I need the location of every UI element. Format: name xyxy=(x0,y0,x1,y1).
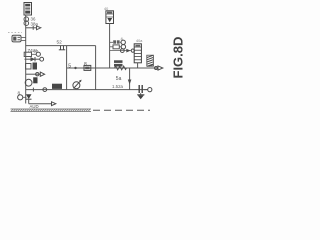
wire (diode down, turn right, AUD arrow) xyxy=(29,99,56,109)
junction tick xyxy=(32,88,34,92)
dashed ground continuation xyxy=(93,109,150,111)
svg-text:40a: 40a xyxy=(136,39,143,43)
block 30 (top-left component box) xyxy=(24,3,32,16)
wire (left bus vertical) xyxy=(25,15,27,104)
wire from ladder block to mid bus xyxy=(137,63,139,68)
diode D1 row with terminal xyxy=(25,57,44,61)
capacitor to box top wire xyxy=(59,46,65,50)
component block on mid bus xyxy=(84,65,91,70)
terminal ring (bottom left) xyxy=(18,95,23,100)
terminal ring (bottom bus right end) xyxy=(144,88,152,92)
ring on bus xyxy=(43,88,47,92)
wire (mid bus y=68) xyxy=(67,67,158,69)
resistor R1 (inline zigzag on mid bus) xyxy=(115,66,127,70)
antenna block (top middle) xyxy=(104,7,114,24)
connector ladder block xyxy=(134,39,143,63)
wire row with ring + terminal xyxy=(26,72,45,76)
svg-text:FIG.8D: FIG.8D xyxy=(171,37,186,79)
wire (long bottom bus y=89.5) xyxy=(26,89,148,91)
svg-text:5a: 5a xyxy=(116,76,122,82)
amplifier box (left edge) xyxy=(66,46,68,90)
inductor L1 (two-loop coil on bus) xyxy=(24,17,29,26)
chassis hatched bar xyxy=(11,109,92,111)
junction dot xyxy=(74,67,76,69)
indicator row 1: box + lamp xyxy=(110,40,126,44)
wire (middle vertical bus) xyxy=(109,24,111,69)
svg-text:40: 40 xyxy=(104,7,108,11)
ground symbol xyxy=(137,93,144,99)
arrow terminal (mid bus right end) xyxy=(155,67,158,70)
indicator row 2: box + lamp xyxy=(110,45,126,49)
wire (long horizontal to box top) xyxy=(26,45,96,47)
capacitor (bottom bus, right) xyxy=(139,85,142,93)
svg-text:3b: 3b xyxy=(34,48,39,53)
diode D2 (down) xyxy=(26,94,32,99)
component Z4 (dark glyph block) xyxy=(26,63,38,70)
label 52a (text block above mid bus) xyxy=(114,60,123,66)
buzzer circle with label a xyxy=(25,77,37,86)
svg-text:AUD: AUD xyxy=(30,104,39,109)
label 36a (above bottom bus) xyxy=(52,84,62,89)
amplifier box (right edge) xyxy=(95,46,97,90)
diode row with lamp xyxy=(110,49,135,53)
meter M (circle with arrow) xyxy=(73,80,82,89)
wire with output arrow (top) xyxy=(26,26,41,30)
microphone MIC xyxy=(12,35,26,42)
svg-text:38a: 38a xyxy=(31,21,39,26)
dashed enclosure line xyxy=(8,32,22,34)
svg-text:1.52a: 1.52a xyxy=(112,84,124,89)
wire with down arrow to bottom bus xyxy=(128,68,132,90)
svg-text:52: 52 xyxy=(57,40,63,46)
hatched element on mid bus xyxy=(147,55,154,66)
svg-text:5: 5 xyxy=(68,64,71,70)
switch block with ring terminal xyxy=(24,48,40,56)
